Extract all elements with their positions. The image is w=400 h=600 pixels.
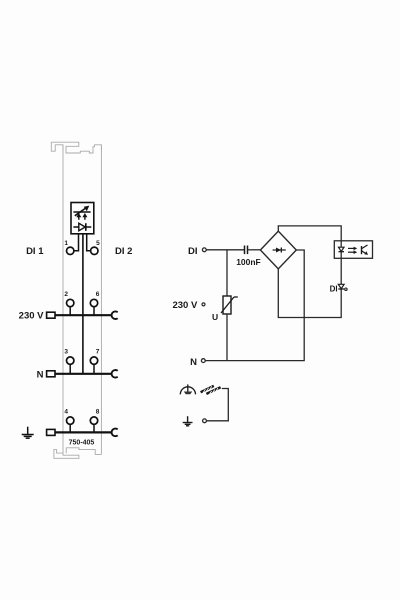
PE jumper contact arc (112, 429, 118, 437)
svg-text:6: 6 (96, 291, 100, 298)
svg-text:DI 2: DI 2 (115, 246, 132, 257)
svg-text:8: 8 (96, 409, 100, 416)
contact 6 (90, 299, 97, 306)
optocoupler U1 box (334, 241, 372, 258)
status LED box (71, 203, 94, 234)
230V jumper contact arc (112, 311, 118, 319)
isolation symbol arc earth (187, 384, 189, 393)
capacitor C1 100nF (244, 246, 246, 255)
230V terminal lug (47, 312, 55, 318)
N jumper contact arc (112, 370, 118, 378)
svg-text:U: U (212, 312, 218, 322)
contact 8 (90, 417, 97, 424)
wire box to contact 1 (74, 234, 79, 251)
svg-text:DI: DI (188, 246, 198, 257)
module housing bottom-right foot (66, 448, 101, 455)
ground symbol module (22, 427, 34, 439)
N terminal lug (47, 371, 55, 377)
wire rail icon to FE terminal (206, 389, 228, 421)
N bus line (55, 373, 112, 375)
wire box to N bus (82, 234, 84, 374)
LED indicator left arrow (76, 213, 81, 217)
svg-text:2: 2 (64, 291, 68, 298)
wire bridge top to optocoupler (278, 226, 341, 241)
bridge rectifier diamond (260, 231, 296, 269)
contact 7 (90, 357, 97, 364)
svg-text:230 V: 230 V (19, 311, 44, 322)
wire varistor to N (226, 314, 228, 361)
wire N to bridge right (205, 250, 304, 361)
LED indicator symbol bar (73, 211, 90, 213)
module housing left edge (62, 145, 64, 453)
wire through optocoupler LED (340, 241, 342, 284)
diode D1 line (73, 226, 91, 228)
wire capacitor to bridge (248, 249, 261, 251)
status LED symbol (338, 284, 344, 288)
optocoupler phototransistor (361, 246, 363, 254)
wire DI to capacitor (206, 249, 244, 251)
contact 5 (91, 247, 98, 254)
PE bus line (55, 431, 113, 433)
contact 3 (67, 357, 74, 364)
optocoupler coupling arrows (348, 247, 355, 249)
contact 4 (67, 417, 74, 424)
svg-text:N: N (37, 369, 44, 380)
svg-text:DI 1: DI 1 (26, 246, 44, 257)
module housing bottom-left foot (54, 450, 79, 459)
svg-text:DI: DI (330, 285, 338, 294)
svg-text:230 V: 230 V (172, 300, 197, 311)
230V bus line (55, 314, 112, 316)
svg-text:7: 7 (96, 349, 100, 356)
svg-text:1: 1 (64, 240, 68, 247)
optocoupler LED (339, 247, 345, 251)
bridge inner diode (273, 249, 286, 251)
wire LED to bridge bottom (278, 269, 341, 318)
svg-text:N: N (190, 357, 197, 368)
LED indicator right arrow (82, 213, 87, 217)
svg-text:100nF: 100nF (236, 257, 261, 267)
varistor U (223, 296, 231, 314)
230 V field terminal (202, 303, 205, 306)
svg-text:5: 5 (96, 240, 100, 247)
N field terminal (201, 359, 205, 363)
svg-text:750-405: 750-405 (69, 440, 95, 447)
contact 1 (67, 247, 74, 254)
FE terminal (203, 419, 207, 423)
DI input terminal (202, 248, 206, 252)
wire DI tee to varistor (226, 250, 228, 296)
contact 2 (67, 299, 74, 306)
LED emission arrow (75, 208, 87, 216)
svg-text:3: 3 (64, 349, 68, 356)
DIN rail icon (201, 386, 221, 395)
svg-text:4: 4 (64, 409, 68, 416)
PE terminal lug (47, 429, 55, 435)
diode D1 triangle (79, 223, 85, 231)
module housing right edge (100, 145, 102, 455)
module housing top profile (51, 142, 101, 153)
ground symbol field (183, 416, 193, 426)
diode D1 cathode bar (85, 223, 87, 231)
wire box to contact 5 (87, 234, 91, 251)
